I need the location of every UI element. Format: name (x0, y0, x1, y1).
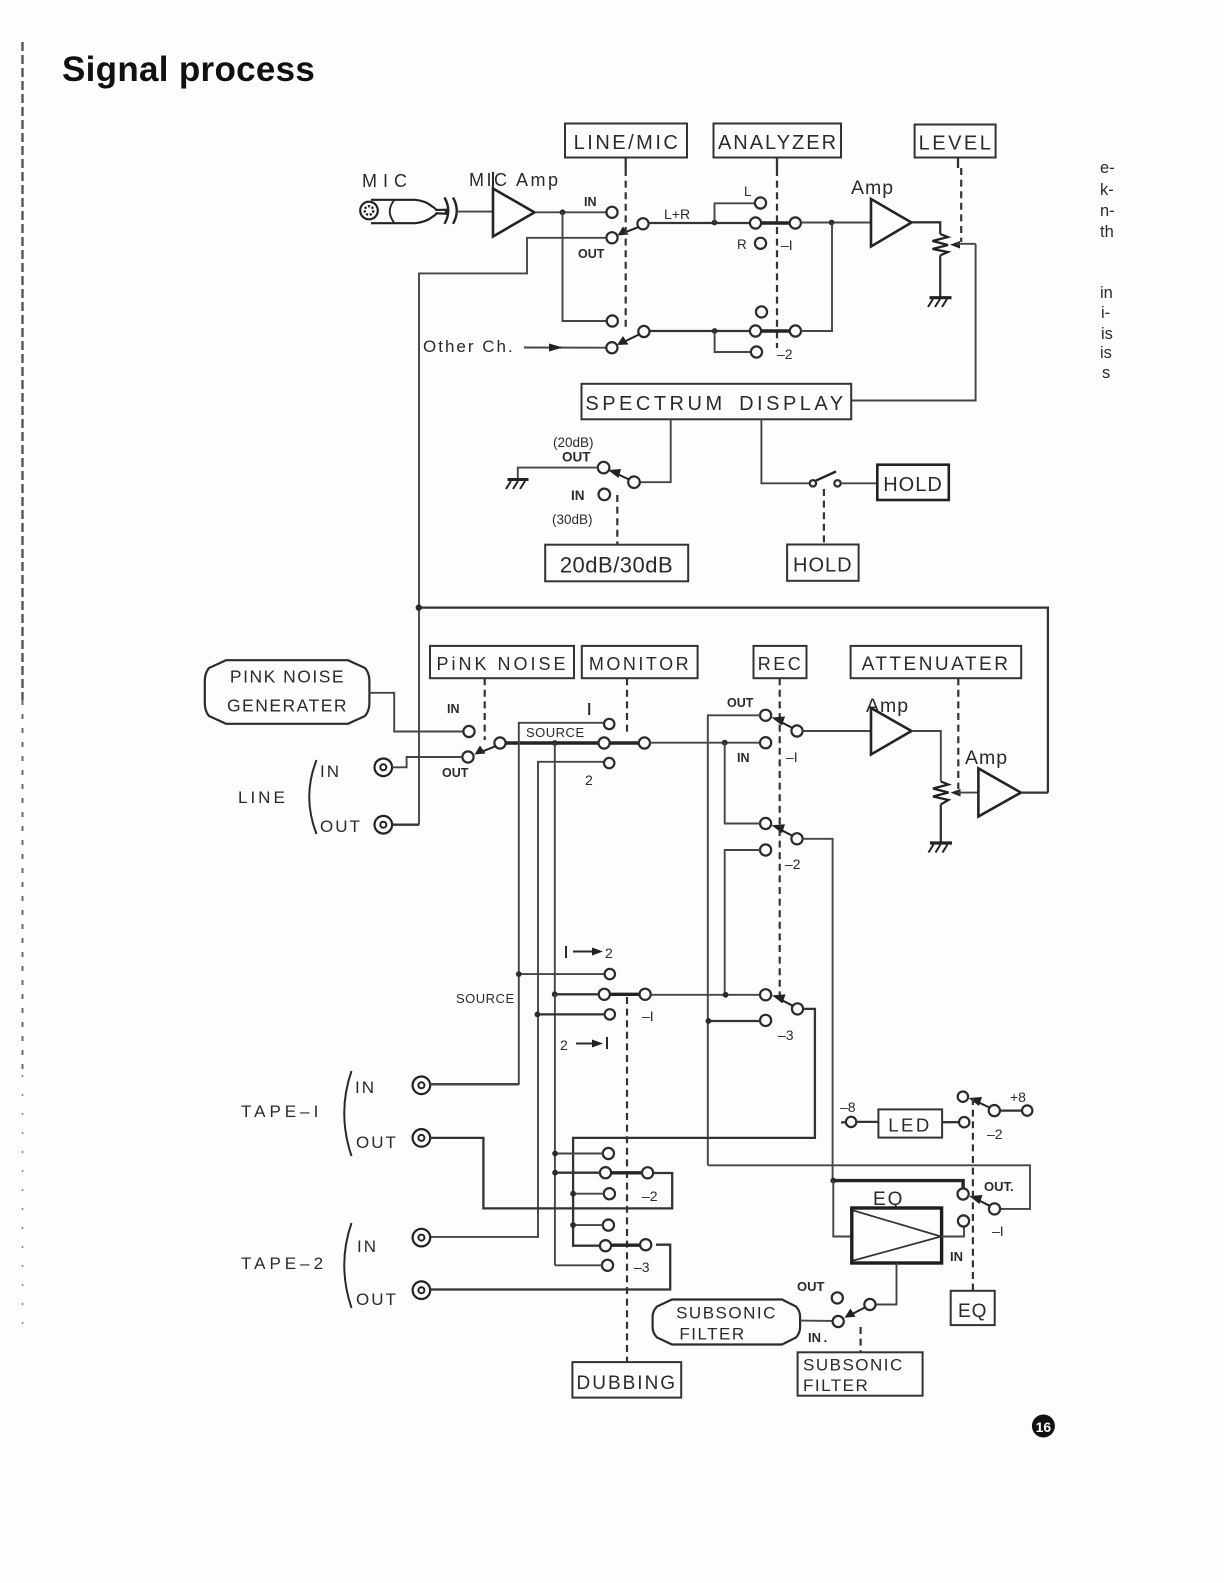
contact source right (639, 737, 650, 748)
wire pot wiper down to spectrum display (852, 244, 976, 401)
svg-text:20dB/30dB: 20dB/30dB (560, 553, 673, 578)
dashed control line MONITOR (626, 678, 628, 736)
node dub B top (570, 1222, 576, 1228)
wire dub B bottom from source bus end (555, 1264, 602, 1266)
pink noise generator bubble (205, 660, 370, 724)
wire source bus lower (554, 994, 556, 1265)
box label PINK NOISE (430, 646, 574, 678)
left page-edge dashed rule (21, 42, 23, 700)
svg-text:REC: REC (758, 654, 804, 674)
node dub A top (552, 1151, 558, 1157)
wire 20dB out to ground (518, 468, 598, 479)
node dub A common (552, 1170, 558, 1176)
contact led left (846, 1117, 856, 1127)
wire mic to amp (457, 211, 493, 213)
svg-text:–3: –3 (634, 1259, 650, 1275)
svg-text:FILTER: FILTER (679, 1325, 745, 1344)
potentiometer VR2 attenuater (933, 782, 949, 805)
wire dub A bottom from dub bus (573, 1193, 604, 1195)
node rec -3 feed junction (723, 992, 729, 998)
svg-text:SPECTRUM DISPLAY: SPECTRUM DISPLAY (585, 393, 846, 415)
switch S1 line/mic pole (637, 218, 648, 229)
wire rec pole to amp3 (803, 730, 872, 732)
node on tape2 bus (535, 1012, 541, 1018)
wire eq input drop (833, 1181, 852, 1237)
dashed control line EQ (972, 1098, 974, 1291)
jack TAPE-2 OUT (413, 1281, 431, 1299)
wire line/mic out return to line jack (419, 238, 607, 825)
svg-text:OUT: OUT (442, 766, 469, 780)
svg-text:–I: –I (781, 237, 793, 253)
closed contact bar dub A (611, 1171, 642, 1174)
contact analyzer R (755, 238, 766, 249)
svg-text:L: L (744, 184, 752, 199)
svg-text:IN: IN (584, 195, 597, 209)
wire rec -2 lower to monitor-source node (725, 850, 760, 995)
wire tape2 out to dub -3 selector (430, 1245, 670, 1290)
closed contact bar analyzer2 (761, 329, 790, 332)
contact subsonic IN (right) (864, 1299, 875, 1310)
svg-text:Signal process: Signal process (62, 50, 315, 89)
wire amp3 to pot (912, 731, 941, 782)
node rail junction on line-out vertical (416, 604, 422, 610)
svg-text:ANALYZER: ANALYZER (718, 132, 838, 154)
node C junction on -2 feed (712, 328, 718, 334)
box label SUBSONIC FILTER (798, 1352, 923, 1395)
wire tape1 out to dub -2 selector (430, 1138, 672, 1209)
svg-text:–2: –2 (777, 346, 793, 362)
svg-text:LINE/MIC: LINE/MIC (574, 132, 681, 154)
wire line-out jack to bus (392, 824, 419, 826)
wire hold switch to HOLD box (841, 482, 878, 484)
wire source common down bus (554, 743, 556, 994)
node rec-in junction (722, 740, 728, 746)
wire rec -3 pole to dubbing bus (573, 1009, 815, 1246)
wire S5 pole to source selector (506, 741, 600, 744)
box label ANALYZER (714, 124, 842, 170)
box label REC (754, 646, 807, 678)
wire -2 branch (715, 331, 751, 352)
svg-text:OUT: OUT (356, 1290, 398, 1309)
contact analyzer L (755, 197, 766, 208)
contact source 2 (604, 758, 614, 768)
svg-text:HOLD: HOLD (793, 555, 853, 577)
switch S4 hold (810, 472, 841, 487)
contact analyzer2 common (750, 325, 761, 336)
switch S3 20/30dB pole (628, 476, 640, 488)
contact monitor 2to1 (605, 1009, 615, 1019)
switch S10 eq bypass pole (989, 1203, 1000, 1214)
contact pink-noise IN (463, 726, 474, 737)
svg-text:–I: –I (786, 749, 798, 765)
wire dub A top from source bus (555, 1153, 603, 1155)
amp U2 level amp (871, 199, 912, 247)
contact source common (599, 737, 610, 748)
svg-text:IN: IN (737, 751, 750, 765)
wire rec -3 lower from monitor bus (708, 1020, 760, 1022)
contact other-ch row lower (606, 342, 617, 353)
wire S9 to +8 contact (1000, 1109, 1022, 1111)
box label DUBBING (572, 1362, 681, 1398)
contact analyzer2 upper (756, 306, 767, 317)
ground (20dB switch) (506, 480, 529, 490)
dashed control line 20dB/30dB (616, 495, 618, 545)
svg-text:SUBSONIC: SUBSONIC (803, 1356, 904, 1375)
svg-text:IN: IN (355, 1078, 376, 1097)
EQ block U5 (852, 1208, 942, 1263)
contact analyzer2 out (790, 325, 801, 336)
wire pot bottom to ground (939, 255, 941, 297)
switch S5 pink-noise pole (494, 737, 505, 748)
brace line group (309, 760, 316, 834)
wire dub A common from source bus (555, 1172, 600, 1174)
wire pot bottom to ground (940, 804, 942, 842)
dub selector A contact top (603, 1148, 614, 1159)
node B junction before level amp (829, 220, 835, 226)
wire bubble to subsonic pole (800, 1320, 833, 1322)
wire pot wiper to amp4 (958, 792, 979, 794)
svg-text:OUT: OUT (356, 1133, 398, 1152)
svg-text:IN: IN (571, 488, 585, 503)
wire dub B top from dub bus (573, 1224, 603, 1226)
contact 30dB IN (599, 489, 611, 501)
contact eq bypass OUT (958, 1188, 969, 1199)
closed contact bar source (610, 741, 639, 744)
dashed control line ATTENUATER (957, 678, 959, 789)
dub selector A bottom (604, 1188, 615, 1199)
contact analyzer out (790, 217, 801, 228)
amp U4 (978, 768, 1021, 816)
svg-text:IN: IN (950, 1249, 963, 1264)
brace tape1 group (344, 1071, 351, 1156)
box label 20dB/30dB (545, 545, 688, 582)
dashed control line DUBBING (626, 997, 628, 1362)
svg-text:–2: –2 (987, 1126, 1003, 1142)
ground (attenuater pot) (929, 843, 953, 853)
svg-text:SOURCE: SOURCE (526, 725, 585, 740)
svg-text:HOLD: HOLD (883, 474, 943, 496)
switch S9 meter range (958, 1092, 1000, 1117)
svg-text:in: in (1100, 284, 1113, 302)
wire monitor source 1to2 (519, 973, 605, 975)
right margin cut-off paragraph fragments (1100, 159, 1115, 382)
node L+R junction (712, 220, 718, 226)
svg-text:DUBBING: DUBBING (577, 1373, 678, 1394)
dashed control line LINE/MIC (625, 169, 627, 330)
wire monitor 2to1 (537, 1013, 604, 1015)
wire rec -2 pole down bus (803, 839, 833, 1181)
box label EQ (951, 1291, 995, 1325)
jack TAPE-1 OUT (413, 1129, 431, 1147)
svg-text:Other Ch.: Other Ch. (423, 337, 515, 356)
svg-text:–8: –8 (840, 1099, 856, 1115)
contact monitor common (599, 989, 610, 1000)
switch S8 rec -3 pole (792, 1003, 803, 1014)
wire eq block bottom to subsonic switch (875, 1263, 896, 1305)
node eq feed junction (830, 1178, 836, 1184)
wire spectrum display to hold switch (761, 419, 810, 483)
svg-text:MONITOR: MONITOR (589, 654, 691, 674)
svg-text:16: 16 (1036, 1419, 1052, 1435)
svg-text:OUT: OUT (797, 1279, 825, 1294)
box LED (878, 1109, 942, 1137)
box SPECTRUM DISPLAY (582, 384, 852, 420)
svg-text:ATTENUATER: ATTENUATER (862, 654, 1011, 675)
switch S7 rec -2 pole (791, 833, 802, 844)
wire amp4 out to rail (1021, 791, 1048, 793)
svg-text:2: 2 (560, 1037, 568, 1053)
closed contact bar dub B (611, 1243, 640, 1246)
ground (level pot) (928, 298, 952, 307)
svg-text:FILTER: FILTER (803, 1376, 869, 1395)
svg-text:–I: –I (992, 1223, 1004, 1239)
contact rec OUT (760, 710, 771, 721)
wire eq feed to bypass OUT contact (833, 1181, 963, 1189)
svg-text:OUT: OUT (320, 817, 362, 836)
wire source-2 to tape2 bus (430, 762, 604, 1237)
jack LINE OUT (375, 816, 393, 834)
svg-text:TAPE–2: TAPE–2 (241, 1254, 327, 1273)
dub selector B right (640, 1239, 651, 1250)
svg-text:2: 2 (605, 945, 613, 961)
svg-text:EQ: EQ (958, 1301, 987, 1322)
svg-text:s: s (1102, 364, 1110, 382)
wire S2 pole to -2 selector (649, 330, 750, 332)
wire monitor common (555, 993, 599, 995)
box label MONITOR (582, 646, 698, 678)
svg-text:PiNK NOISE: PiNK NOISE (436, 654, 568, 674)
wire eq out vertex to bypass -1 contact (942, 1227, 964, 1237)
closed contact bar analyzer (761, 221, 790, 224)
wire line-in jack to pink-noise OUT (392, 757, 462, 767)
page number badge 16 (1032, 1415, 1055, 1438)
contact subsonic OUT (832, 1292, 843, 1303)
switch S6 rec pole (791, 725, 802, 736)
wire S1 pole to L+R node (649, 222, 750, 224)
contact led right (959, 1117, 969, 1127)
svg-text:MIC: MIC (362, 171, 413, 191)
wire other-ch arrow lead (524, 347, 606, 349)
dub selector B common (600, 1240, 611, 1251)
node source junction (552, 740, 558, 746)
svg-text:n-: n- (1100, 202, 1115, 220)
switch S2 other-ch pole (638, 326, 649, 337)
wire analyzer2 out up to node B (801, 223, 832, 332)
box label ATTENUATER (851, 646, 1022, 678)
potentiometer VR1 level (933, 234, 949, 255)
wire pink noise gen to IN contact (369, 693, 463, 732)
contact rec -3 upper (760, 989, 771, 1000)
wire top rail (line out bus) (419, 608, 1048, 793)
contact eq bypass -1 (958, 1215, 969, 1226)
microphone plug symbol (360, 200, 446, 223)
closed contact bar monitor (610, 993, 640, 996)
box label LEVEL (915, 125, 996, 169)
dashed control line HOLD (823, 489, 825, 545)
jack TAPE-1 IN (413, 1077, 431, 1095)
svg-text:OUT: OUT (727, 696, 754, 710)
svg-text:OUT.: OUT. (984, 1179, 1014, 1194)
contact analyzer common (750, 217, 761, 228)
svg-text:–3: –3 (778, 1027, 794, 1043)
svg-text:IN: IN (357, 1237, 378, 1256)
wire led left (856, 1121, 878, 1123)
cable-break symbol (445, 198, 449, 224)
svg-text:R: R (737, 237, 747, 252)
contact rec -2 upper (760, 818, 771, 829)
contact source 1 (604, 719, 614, 729)
wire rec out to monitor bus (708, 715, 760, 1165)
svg-text:OUT: OUT (578, 247, 605, 261)
contact other-ch row upper (607, 315, 618, 326)
svg-text:+8: +8 (1010, 1089, 1026, 1105)
subsonic filter generator bubble (653, 1300, 801, 1345)
svg-text:IN: IN (447, 702, 460, 716)
wire analyzer out to amp (801, 222, 871, 224)
svg-text:–2: –2 (785, 856, 801, 872)
svg-text:SUBSONIC: SUBSONIC (676, 1304, 777, 1323)
node on monitor bus (706, 1018, 712, 1024)
node on tape1 bus (516, 971, 522, 977)
dashed control line LEVEL (960, 168, 962, 242)
svg-text:TAPE–I: TAPE–I (241, 1102, 322, 1121)
label 1->2 (monitor source) (566, 945, 613, 961)
contact +8 (1022, 1105, 1032, 1115)
svg-text:LED: LED (888, 1115, 932, 1136)
jack LINE IN (375, 759, 393, 777)
dub selector A right (642, 1167, 653, 1178)
svg-text:is: is (1100, 344, 1112, 362)
contact 20dB OUT (598, 462, 610, 474)
svg-text:MIC Amp: MIC Amp (469, 170, 561, 190)
svg-text:Amp: Amp (965, 747, 1008, 769)
svg-text:(20dB): (20dB) (553, 435, 594, 450)
svg-text:OUT: OUT (562, 450, 591, 465)
dub selector B bottom (602, 1260, 613, 1271)
wire spectrum display to 20dB switch (640, 419, 671, 482)
wire L branch (715, 203, 756, 222)
node A junction after mic amp (560, 209, 566, 215)
svg-text:i-: i- (1101, 304, 1110, 322)
svg-text:Amp: Amp (866, 695, 909, 717)
wire monitor bus to eq bypass pole (708, 1165, 1030, 1209)
amp U3 (871, 708, 912, 755)
label 2->1 (monitor source) (560, 1037, 607, 1053)
svg-text:–2: –2 (642, 1188, 658, 1204)
wire monitor out to rec -3 upper (651, 994, 760, 996)
dashed control line SUBSONIC (859, 1327, 861, 1352)
svg-text:IN: IN (320, 762, 341, 781)
svg-text:LINE: LINE (238, 788, 288, 807)
wire amp out to level pot (912, 222, 941, 234)
svg-text:GENERATER: GENERATER (227, 696, 348, 716)
svg-text:is: is (1101, 325, 1113, 343)
wire amp out to node A (535, 211, 607, 213)
amp U1 mic amp (492, 172, 494, 189)
dub selector A common (600, 1167, 611, 1178)
contact monitor 1to2 (605, 969, 615, 979)
wire source-1 to tape1 bus (430, 723, 604, 1084)
contact LINE/MIC IN (606, 207, 617, 218)
jack TAPE-2 IN (413, 1229, 431, 1247)
contact pink-noise OUT (462, 751, 473, 762)
svg-text:Amp: Amp (851, 177, 894, 199)
contact analyzer2 lower (-2) (751, 346, 762, 357)
contact LINE/MIC OUT (606, 232, 617, 243)
dub selector B contact top (603, 1220, 614, 1231)
svg-text:IN .: IN . (808, 1330, 827, 1345)
wire source out to rec in (650, 742, 760, 744)
contact rec IN (760, 737, 771, 748)
contact rec -2 lower (760, 844, 771, 855)
box label LINE/MIC (565, 124, 687, 170)
label 1 (source) (588, 703, 590, 715)
node on source bus (552, 991, 558, 997)
contact monitor right (640, 989, 651, 1000)
svg-text:SOURCE: SOURCE (456, 991, 515, 1006)
svg-text:LEVEL: LEVEL (919, 133, 994, 155)
svg-text:e-: e- (1100, 159, 1115, 177)
wire node A down to other-ch row (563, 212, 607, 321)
dashed control line PINK NOISE (484, 678, 486, 740)
svg-text:2: 2 (585, 772, 593, 788)
svg-text:–I: –I (642, 1008, 654, 1024)
svg-text:th: th (1100, 223, 1114, 241)
wire tape1 in jack lead (430, 1084, 519, 1086)
switch S11 subsonic pole (833, 1316, 844, 1327)
wire rec-in branch to -2 upper (725, 743, 760, 824)
svg-text:(30dB): (30dB) (552, 512, 593, 527)
box HOLD (right) (877, 465, 949, 500)
svg-text:k-: k- (1100, 181, 1114, 199)
brace tape2 group (344, 1223, 351, 1308)
svg-text:L+R: L+R (664, 206, 690, 222)
node dub A bottom (570, 1191, 576, 1197)
contact rec -3 lower (760, 1015, 771, 1026)
dashed control line ANALYZER (776, 169, 778, 348)
svg-text:PINK NOISE: PINK NOISE (230, 667, 345, 687)
box label HOLD (lower) (787, 545, 859, 581)
wire led right (942, 1121, 959, 1123)
dashed control line REC (779, 678, 781, 1002)
